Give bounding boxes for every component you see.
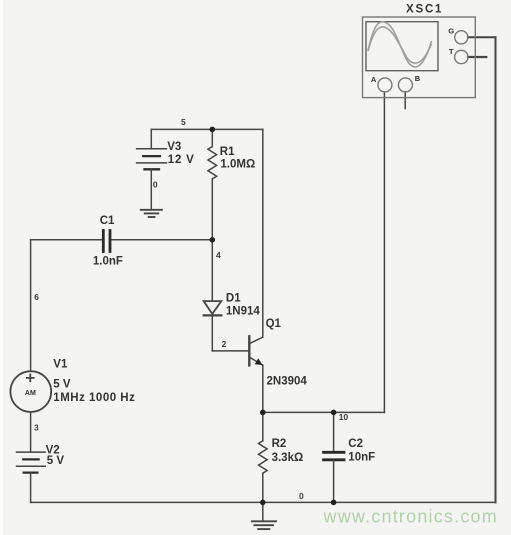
svg-text:B: B: [415, 74, 421, 83]
svg-text:5: 5: [181, 117, 186, 127]
svg-text:V1: V1: [53, 358, 68, 370]
svg-text:6: 6: [34, 292, 39, 302]
svg-text:G: G: [448, 26, 454, 35]
svg-text:4: 4: [216, 250, 221, 260]
svg-text:0: 0: [153, 179, 158, 189]
svg-text:2: 2: [222, 339, 227, 349]
svg-text:1MHz 1000 Hz: 1MHz 1000 Hz: [53, 392, 135, 404]
svg-text:1.0MΩ: 1.0MΩ: [220, 159, 255, 171]
svg-text:A: A: [371, 75, 377, 84]
svg-text:T: T: [449, 47, 454, 56]
svg-text:3: 3: [34, 423, 39, 433]
svg-text:R1: R1: [220, 146, 235, 158]
svg-text:12 V: 12 V: [168, 154, 195, 166]
svg-text:3.3kΩ: 3.3kΩ: [272, 452, 304, 464]
svg-text:V3: V3: [167, 141, 181, 153]
svg-text:1.0nF: 1.0nF: [93, 255, 123, 267]
svg-text:R2: R2: [272, 438, 287, 450]
svg-text:10: 10: [339, 412, 349, 422]
svg-text:C2: C2: [348, 438, 363, 450]
svg-text:D1: D1: [226, 293, 241, 305]
svg-text:1N914: 1N914: [226, 305, 260, 317]
svg-text:Q1: Q1: [266, 318, 282, 330]
svg-text:2N3904: 2N3904: [267, 375, 308, 387]
svg-text:0: 0: [299, 491, 304, 501]
svg-text:XSC1: XSC1: [406, 3, 443, 15]
svg-text:5 V: 5 V: [47, 455, 65, 467]
svg-text:10nF: 10nF: [348, 452, 375, 464]
svg-text:AM: AM: [25, 390, 36, 397]
svg-text:5 V: 5 V: [53, 379, 71, 391]
svg-text:www.cntronics.com: www.cntronics.com: [323, 507, 498, 527]
svg-text:C1: C1: [100, 215, 115, 227]
